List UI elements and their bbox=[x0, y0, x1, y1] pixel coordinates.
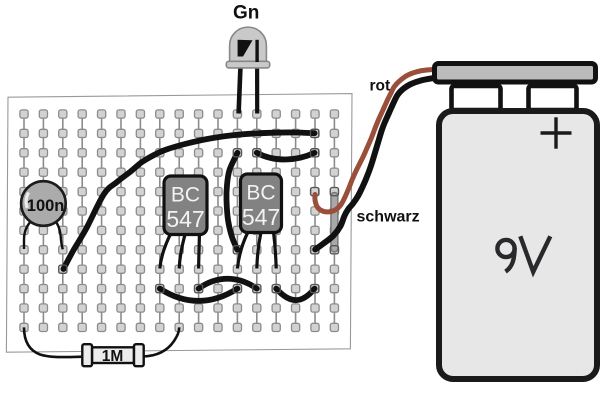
battery body bbox=[439, 111, 597, 379]
svg-text:BC: BC bbox=[171, 184, 200, 207]
svg-text:547: 547 bbox=[166, 206, 204, 232]
svg-text:Gn: Gn bbox=[233, 3, 259, 24]
black wire schwarz: battery clip to pad(315,250) bbox=[315, 78, 434, 250]
svg-text:1M: 1M bbox=[102, 348, 124, 365]
solder pad ring at W2 end bbox=[311, 149, 319, 157]
resistor R1 body 1M bbox=[92, 347, 134, 363]
wire W1: long arc pad(63,269) to pad(315,133) bbox=[64, 132, 315, 269]
wire arc B2: pad(199,289) to pad(257,289) bow up bbox=[199, 279, 257, 289]
solder pad ring at W1 end bbox=[311, 129, 319, 137]
svg-text:rot: rot bbox=[370, 78, 391, 95]
transistor Q1 legs bbox=[160, 233, 171, 269]
wire arc B3: pad(276,289) to pad(315,289) sag down bbox=[276, 289, 314, 301]
battery 9V text (drawn thin) bbox=[497, 236, 550, 271]
LED D1 legs bbox=[239, 58, 241, 114]
LED D1 body bbox=[230, 27, 267, 61]
wire S: pad(237,153) down to pad(237,250) bulging left bbox=[226, 153, 237, 250]
battery terminal right bbox=[529, 86, 577, 110]
svg-text:schwarz: schwarz bbox=[357, 209, 420, 226]
wire W2: arc pad(257,153) to pad(315,153) bbox=[257, 153, 315, 160]
solder pad rings at wire ends bbox=[59, 265, 67, 273]
capacitor C1 legs bbox=[24, 219, 33, 249]
svg-text:100n: 100n bbox=[27, 197, 65, 215]
gray jumper wire (bare) col16 row4-row7 bbox=[330, 196, 338, 249]
svg-text:BC: BC bbox=[246, 182, 275, 205]
battery clip cap bbox=[435, 64, 596, 83]
transistor Q1 body BC547 bbox=[164, 176, 207, 235]
transistor Q2 legs bbox=[237, 232, 248, 269]
battery plus sign bbox=[541, 131, 572, 134]
svg-text:547: 547 bbox=[242, 204, 280, 230]
LED D1 die and post bbox=[238, 40, 253, 57]
wire arc B1: pad(160,289) to pad(237,289) sag down bbox=[160, 289, 238, 301]
red wire rot: battery clip to pad(315,192) bbox=[315, 70, 433, 212]
capacitor C1 body 100n bbox=[21, 181, 66, 226]
resistor R1 leads bbox=[24, 327, 83, 357]
battery terminal left bbox=[452, 86, 501, 110]
transistor Q2 body BC547 bbox=[241, 174, 282, 233]
stripboard pad grid bbox=[20, 110, 339, 332]
stripboard board outline bbox=[6, 94, 352, 353]
